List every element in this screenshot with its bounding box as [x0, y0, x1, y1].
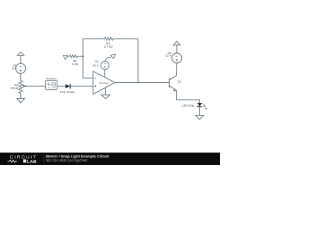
VCC arrow for V1 — [18, 52, 24, 63]
Arduino box — [46, 77, 58, 90]
svg-text:1 kΩ: 1 kΩ — [72, 62, 79, 66]
output wire to Q1 base — [115, 82, 169, 84]
ground under op-amp — [101, 95, 110, 99]
voltage source V2 — [101, 61, 109, 69]
potentiometer R1 — [19, 80, 27, 96]
VCC arrow for V3 — [173, 41, 180, 53]
label R1 10 kOhm — [10, 83, 19, 90]
op-amp U1 — [93, 71, 115, 94]
LED light arrows — [203, 104, 207, 110]
label R2 1 kOhm — [72, 59, 79, 66]
svg-text:10 kΩ: 10 kΩ — [10, 86, 19, 90]
voltage source V3 — [172, 53, 182, 63]
op-amp V+ supply wire — [104, 69, 106, 77]
wire V1 to R1 — [20, 73, 22, 79]
node flag arrow above V2 — [105, 54, 116, 61]
resistor R3 feedback — [83, 37, 138, 40]
svg-text:Arduino: Arduino — [46, 77, 57, 81]
svg-text:Op Amp: Op Amp — [99, 81, 109, 85]
svg-text:Prot. Diode: Prot. Diode — [60, 90, 75, 94]
wire Arduino to diode — [57, 85, 65, 87]
feedback wire down to output — [137, 39, 139, 83]
svg-text:2.7 kΩ: 2.7 kΩ — [104, 45, 114, 49]
diode D1 Prot. Diode — [60, 84, 75, 94]
resistor R2 — [69, 55, 78, 58]
svg-text:10 V: 10 V — [93, 63, 99, 67]
op-amp V- supply wire — [105, 88, 107, 95]
svg-text:12 V: 12 V — [165, 54, 171, 58]
transistor Q1 — [169, 76, 176, 92]
label V1 9 V — [12, 64, 17, 71]
wire R1 wiper to Arduino IN — [25, 85, 46, 87]
label V3 12 V — [165, 51, 172, 58]
collector wire to V3 — [176, 63, 178, 76]
svg-text:LED Strip: LED Strip — [182, 103, 194, 107]
wire diode to op-amp + input — [71, 85, 93, 87]
label V2 10 V — [93, 60, 100, 68]
ground under LED — [196, 115, 204, 119]
vertical feedback wire — [83, 39, 93, 78]
node flag arrow at R2 — [63, 55, 68, 59]
svg-text:http://circuitlab.com/cge54kd: http://circuitlab.com/cge54kd — [46, 159, 88, 163]
svg-text:9 V: 9 V — [12, 67, 17, 71]
LED D2 LED Strip — [197, 103, 202, 115]
voltage source V1 — [16, 63, 26, 73]
svg-text:LAB: LAB — [27, 159, 37, 164]
junction at inverting node — [82, 55, 84, 57]
emitter wire to LED — [177, 90, 200, 103]
CircuitLab logo — [8, 155, 38, 164]
ground under R1 — [17, 95, 25, 103]
label R3 2.7 kOhm — [104, 42, 114, 49]
footer divider — [43, 155, 45, 163]
junction at output node — [137, 82, 139, 84]
wire R2 to inverting node — [78, 55, 83, 57]
footer bar — [0, 153, 220, 165]
svg-text:Q1: Q1 — [177, 79, 181, 83]
